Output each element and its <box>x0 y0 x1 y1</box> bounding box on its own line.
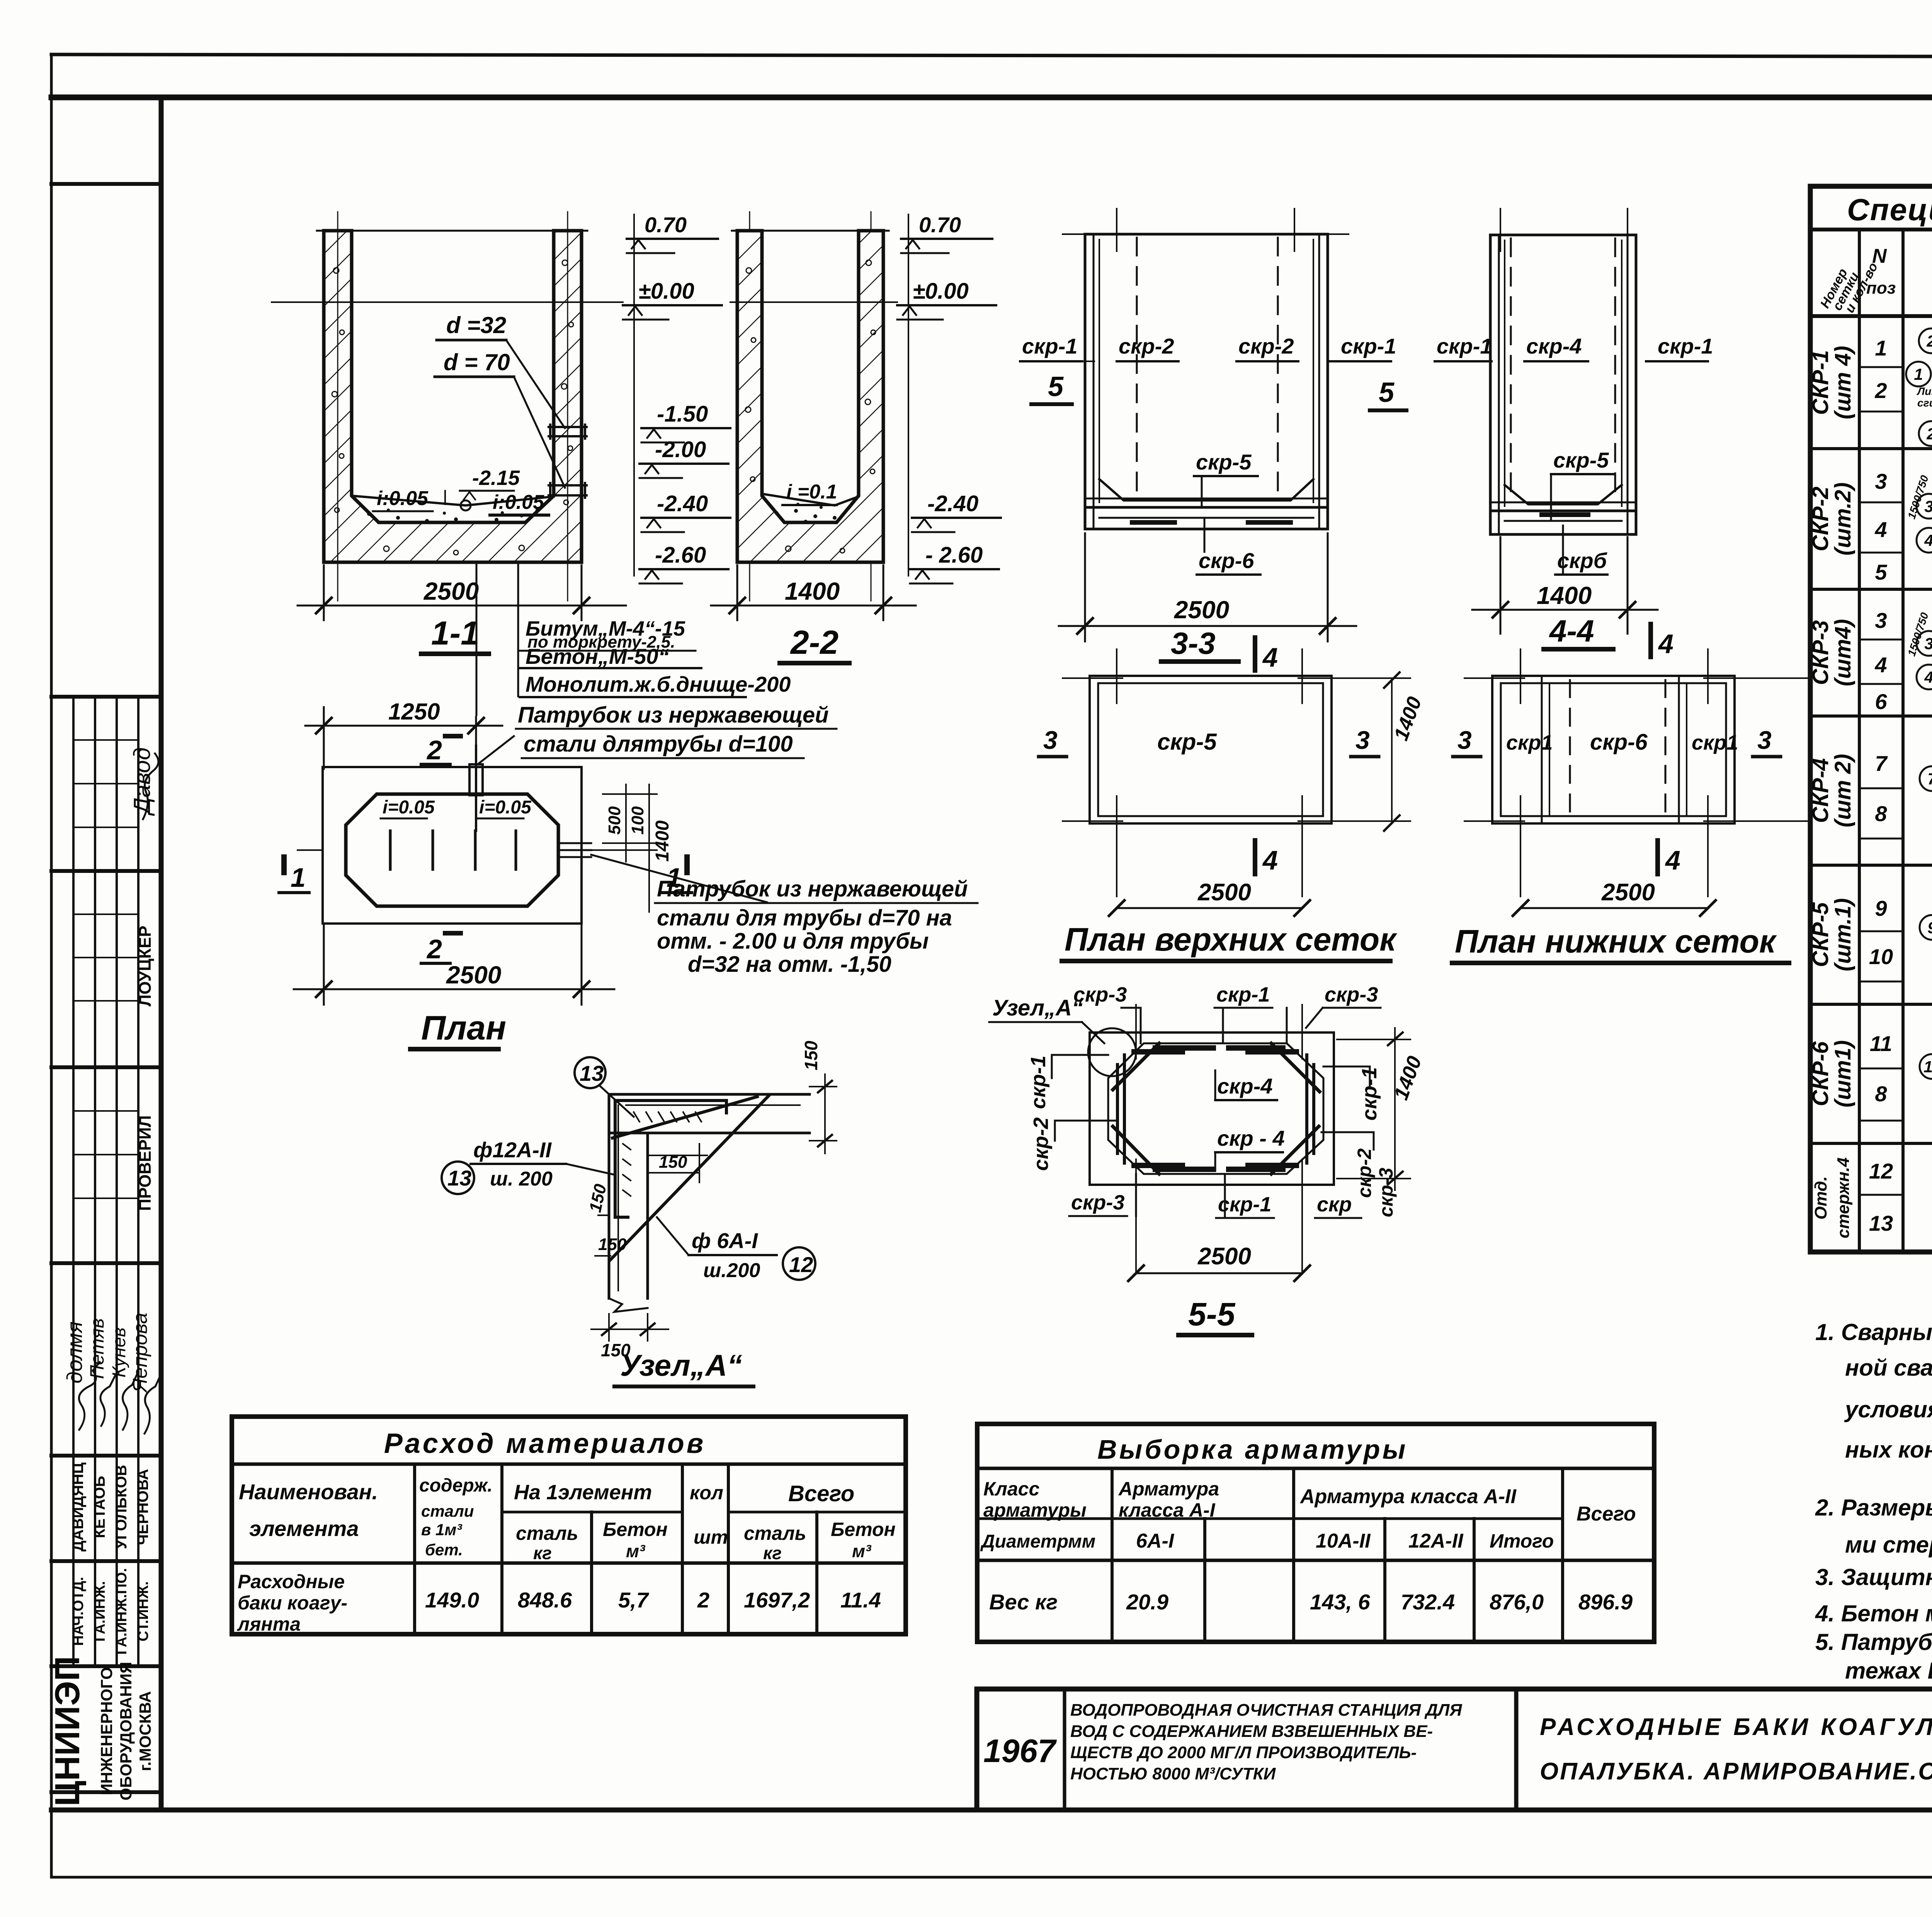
plan right pipe stub <box>558 843 591 857</box>
svg-text:СКР-5: СКР-5 <box>1808 902 1833 967</box>
svg-text:3: 3 <box>1924 497 1932 515</box>
svg-text:ЩЕСТВ ДО 2000 МГ/Л ПРОИЗВОДИТЕ: ЩЕСТВ ДО 2000 МГ/Л ПРОИЗВОДИТЕЛЬ- <box>1070 1743 1417 1762</box>
5-5 uzel A circle <box>1088 1028 1136 1076</box>
svg-text:скр-6: скр-6 <box>1590 730 1648 755</box>
svg-text:5: 5 <box>1048 371 1064 402</box>
svg-text:4: 4 <box>1262 642 1278 672</box>
svg-text:скр-5: скр-5 <box>1157 729 1217 755</box>
svg-text:(шт 4): (шт 4) <box>1830 346 1855 419</box>
section 2-2 screed floor slope <box>762 494 859 505</box>
svg-text:ми стержнями поперечного на: ми стержнями поперечного направления . <box>1845 1532 1932 1558</box>
svg-text:4: 4 <box>1924 668 1932 686</box>
svg-text:КЕТАОБ: КЕТАОБ <box>91 1476 108 1538</box>
svg-text:элемента: элемента <box>249 1516 359 1541</box>
svg-text:Кунев: Кунев <box>109 1327 129 1378</box>
svg-text:2: 2 <box>697 1588 709 1612</box>
svg-text:Отд.: Отд. <box>1811 1176 1830 1220</box>
svg-text:1967: 1967 <box>983 1733 1057 1769</box>
level -1.50 <box>641 401 730 442</box>
svg-text:ф 6А-І: ф 6А-І <box>692 1228 758 1253</box>
svg-text:стержн.4: стержн.4 <box>1834 1157 1853 1238</box>
svg-text:1250: 1250 <box>388 699 440 725</box>
svg-text:(шт.1): (шт.1) <box>1830 898 1855 971</box>
svg-text:скр1: скр1 <box>1692 731 1738 754</box>
svg-text:ВОД С СОДЕРЖАНИЕМ ВЗВЕШЕННЫХ В: ВОД С СОДЕРЖАНИЕМ ВЗВЕШЕННЫХ ВЕ- <box>1070 1722 1433 1741</box>
svg-text:Патрубок из нержавеющей: Патрубок из нержавеющей <box>657 876 968 902</box>
svg-text:Бетон: Бетон <box>603 1519 668 1540</box>
svg-text:План нижних сеток: План нижних сеток <box>1455 923 1777 959</box>
sketch mesh group 2 <box>1905 452 1932 590</box>
svg-text:НАЧ.ОТД.: НАЧ.ОТД. <box>70 1577 87 1646</box>
svg-text:i=0.05: i=0.05 <box>479 797 532 818</box>
svg-text:0.70: 0.70 <box>919 213 961 237</box>
svg-text:732.4: 732.4 <box>1401 1590 1455 1614</box>
header texts <box>1818 235 1932 318</box>
pipe sleeve d=70 through right wall <box>549 483 587 498</box>
section 1-1 top edge line <box>317 230 587 232</box>
svg-text:стали: стали <box>421 1502 474 1520</box>
svg-text:100: 100 <box>628 806 647 835</box>
svg-text:сталь: сталь <box>516 1522 578 1544</box>
sketch mesh group 3 <box>1905 603 1932 724</box>
top mesh plan rectangle <box>1090 676 1332 823</box>
svg-text:Петяв: Петяв <box>86 1318 108 1379</box>
svg-text:(шт.2): (шт.2) <box>1830 482 1855 555</box>
svg-text:3: 3 <box>1924 634 1932 653</box>
svg-text:4: 4 <box>1262 845 1278 875</box>
elevation 3-3 bottom slab lines <box>1085 479 1328 522</box>
svg-text:- 2.60: - 2.60 <box>925 543 983 568</box>
svg-text:150: 150 <box>659 1153 687 1172</box>
svg-text:2-2: 2-2 <box>790 624 838 661</box>
svg-text:±0.00: ±0.00 <box>913 279 969 304</box>
svg-text:шт: шт <box>694 1526 728 1548</box>
svg-text:4: 4 <box>1665 845 1680 875</box>
svg-text:4: 4 <box>1874 517 1887 542</box>
elevation 4-4 dashed mesh lines <box>1511 238 1615 502</box>
svg-text:скр-5: скр-5 <box>1553 448 1609 472</box>
svg-text:арматуры: арматуры <box>983 1499 1087 1521</box>
svg-text:9: 9 <box>1875 896 1887 920</box>
svg-text:Диаметрмм: Диаметрмм <box>980 1531 1095 1552</box>
svg-text:Арматура: Арматура <box>1118 1478 1219 1500</box>
svg-text:4-4: 4-4 <box>1549 614 1594 648</box>
svg-text:Линия: Линия <box>1917 385 1932 397</box>
svg-text:4: 4 <box>1874 653 1887 677</box>
svg-text:На 1элемент: На 1элемент <box>514 1481 652 1504</box>
uzel A dim 150 below slab <box>648 1144 707 1182</box>
svg-text:Наименован.: Наименован. <box>239 1480 378 1504</box>
section marker 1 left <box>279 857 309 893</box>
svg-text:Класс: Класс <box>983 1478 1039 1500</box>
svg-text:УГОЛЬКОВ: УГОЛЬКОВ <box>113 1465 130 1549</box>
svg-text:N: N <box>1872 245 1887 267</box>
svg-text:2: 2 <box>1926 425 1932 443</box>
svg-text:кг: кг <box>763 1543 782 1563</box>
svg-text:СКР-2: СКР-2 <box>1808 486 1833 551</box>
svg-text:i=0.05: i=0.05 <box>383 797 435 818</box>
5-5 outer rect <box>1090 1032 1334 1185</box>
svg-text:Вес кг: Вес кг <box>989 1590 1058 1614</box>
dimension 1400 under section 2-2 <box>711 565 916 620</box>
svg-text:848.6: 848.6 <box>518 1588 572 1612</box>
svg-text:(шт1): (шт1) <box>1830 1040 1855 1107</box>
svg-text:d = 70: d = 70 <box>444 349 510 375</box>
svg-text:3: 3 <box>1355 726 1370 754</box>
svg-text:скр-5: скр-5 <box>1196 450 1252 474</box>
5-5 corner extension verticals <box>1136 1005 1302 1271</box>
elevation 3-3 corner extension lines <box>1063 209 1349 251</box>
dimension 1250 above plan <box>305 707 502 769</box>
svg-text:ИНЖЕНЕРНОГО: ИНЖЕНЕРНОГО <box>97 1667 116 1795</box>
svg-text:2500: 2500 <box>423 577 479 605</box>
dim 2500 below <box>1109 900 1310 916</box>
plan outer wall rectangle <box>323 767 582 924</box>
levels right of section 2-2 <box>908 214 909 576</box>
uzel A slab (top horizontal element) <box>609 1094 810 1298</box>
svg-text:Расход материалов: Расход материалов <box>384 1428 706 1459</box>
svg-text:скр-4: скр-4 <box>1526 334 1582 358</box>
svg-text:НОСТЬЮ 8000 М³/СУТКИ: НОСТЬЮ 8000 М³/СУТКИ <box>1070 1764 1276 1783</box>
svg-text:5-5: 5-5 <box>1188 1296 1236 1332</box>
leader to top pipe note <box>479 736 514 763</box>
svg-text:896.9: 896.9 <box>1578 1590 1633 1614</box>
svg-text:стали длятрубы d=100: стали длятрубы d=100 <box>524 731 793 757</box>
svg-text:Расходные: Расходные <box>238 1571 345 1592</box>
svg-text:ПРОВЕРИЛ: ПРОВЕРИЛ <box>136 1115 155 1211</box>
svg-text:-2.00: -2.00 <box>655 437 706 462</box>
svg-text:5: 5 <box>1379 377 1395 408</box>
svg-text:ш. 200: ш. 200 <box>490 1168 553 1190</box>
svg-text:1-1: 1-1 <box>431 615 479 652</box>
sketch mesh group 5 <box>1920 849 1932 1007</box>
sketch mesh group 6 <box>1920 1022 1932 1146</box>
5-5 mesh bars top/bottom (thick dashes) <box>1134 1048 1296 1169</box>
svg-text:500: 500 <box>605 806 624 835</box>
svg-text:стали для трубы d=70 на: стали для трубы d=70 на <box>657 905 952 930</box>
svg-text:7: 7 <box>1927 770 1932 788</box>
pipe sleeve d=32 through right wall <box>549 425 587 439</box>
svg-text:скр-1: скр-1 <box>1658 334 1713 358</box>
svg-text:скр-2: скр-2 <box>1119 334 1174 358</box>
svg-text:сталь: сталь <box>744 1522 806 1544</box>
svg-text:149.0: 149.0 <box>425 1588 479 1612</box>
svg-text:12: 12 <box>1869 1159 1893 1183</box>
circled 13 top <box>575 1057 605 1088</box>
svg-text:d =32: d =32 <box>446 312 506 338</box>
svg-text:2: 2 <box>426 934 442 964</box>
svg-text:г.МОСКВА: г.МОСКВА <box>136 1691 154 1771</box>
level column between sections <box>633 214 635 576</box>
svg-text:150: 150 <box>598 1235 627 1254</box>
svg-text:скр: скр <box>1317 1193 1352 1216</box>
section 2-2 top edge <box>732 230 889 232</box>
svg-text:3: 3 <box>1043 726 1058 754</box>
svg-text:ГА.ИНЖ.ПО.: ГА.ИНЖ.ПО. <box>114 1568 130 1655</box>
svg-text:условиями на сварную арматур: условиями на сварную арматуру для железо… <box>1844 1397 1932 1422</box>
svg-text:8: 8 <box>1875 1082 1887 1106</box>
5-5 vertical side bars <box>1117 1055 1314 1163</box>
svg-text:ГА.ИНЖ.: ГА.ИНЖ. <box>92 1581 108 1642</box>
uzel A break line bottom <box>609 1298 648 1312</box>
svg-text:скр-3: скр-3 <box>1071 1191 1124 1214</box>
svg-text:20.9: 20.9 <box>1126 1590 1168 1614</box>
svg-text:4: 4 <box>1924 531 1932 549</box>
plan inner slope tick marks <box>390 831 516 869</box>
svg-text:сгиба: сгиба <box>1917 397 1932 409</box>
svg-text:11: 11 <box>1870 1031 1892 1056</box>
svg-text:класса А-І: класса А-І <box>1119 1499 1216 1521</box>
svg-text:3. Защитный слой бетона 25мм: 3. Защитный слой бетона 25мм. <box>1815 1564 1932 1590</box>
svg-text:1: 1 <box>1914 365 1923 383</box>
svg-text:13: 13 <box>1869 1211 1893 1235</box>
svg-text:скр-6: скр-6 <box>1199 548 1254 573</box>
svg-text:ф12А-ІІ: ф12А-ІІ <box>473 1138 552 1162</box>
dim 2500 below <box>1513 900 1716 916</box>
svg-text:876,0: 876,0 <box>1490 1590 1544 1614</box>
uzel A hatch ticks on rebar <box>623 1112 701 1196</box>
plan centerline horizontal <box>298 849 323 851</box>
svg-text:Узел„А“: Узел„А“ <box>620 1348 742 1382</box>
sketch mesh group 1 <box>1906 300 1932 453</box>
svg-text:-2.40: -2.40 <box>927 491 978 516</box>
group rotated labels <box>1808 346 1855 1238</box>
svg-text:лянта: лянта <box>237 1613 301 1635</box>
svg-text:1: 1 <box>291 862 306 893</box>
level -2.40 <box>641 491 730 532</box>
svg-text:2: 2 <box>1874 378 1887 403</box>
svg-text:5. Патрубки из нержавеющей ста: 5. Патрубки из нержавеющей стали см.на ч… <box>1815 1629 1932 1655</box>
concrete dots in walls 1-1 <box>332 260 573 555</box>
concrete dots in walls 2-2 <box>745 260 876 553</box>
svg-text:3: 3 <box>1757 726 1772 754</box>
svg-text:кг: кг <box>533 1543 552 1563</box>
svg-text:6А-І: 6А-І <box>1136 1530 1175 1552</box>
svg-text:скр-2: скр-2 <box>1238 334 1294 358</box>
svg-text:Яепрова: Яепрова <box>129 1313 151 1393</box>
svg-text:10: 10 <box>1869 944 1893 969</box>
svg-text:скр-1: скр-1 <box>1216 983 1270 1006</box>
svg-text:150: 150 <box>801 1041 821 1070</box>
row lines <box>1859 367 1932 1195</box>
elevation 3-3 dim 2500 <box>1059 533 1356 641</box>
svg-text:Давод: Давод <box>129 747 155 816</box>
svg-text:отм. - 2.00 и для трубы: отм. - 2.00 и для трубы <box>657 929 929 954</box>
plan inner octagon wall face <box>346 794 558 906</box>
svg-text:2500: 2500 <box>1601 879 1655 906</box>
elevation 3-3 outline <box>1085 234 1328 529</box>
leader to right pipe note <box>591 855 767 902</box>
svg-text:План: План <box>421 1009 506 1047</box>
section 1-1 monolithic U wall+slab (hatched) <box>324 231 582 562</box>
svg-text:13: 13 <box>447 1166 471 1190</box>
svg-text:ЧЕРНОВА: ЧЕРНОВА <box>134 1469 151 1545</box>
svg-text:баки коагу-: баки коагу- <box>238 1592 347 1614</box>
marker 4 beside 3-3 <box>1253 638 1257 670</box>
svg-text:поз: поз <box>1866 279 1896 298</box>
group separator lines <box>1810 449 1932 1143</box>
svg-text:9: 9 <box>1927 919 1932 937</box>
strip signatures <box>79 754 161 1434</box>
svg-text:Бетон„М-50“: Бетон„М-50“ <box>526 644 669 668</box>
svg-text:2500: 2500 <box>1197 879 1251 906</box>
svg-text:-2.15: -2.15 <box>472 466 520 490</box>
marker 4 below <box>1253 840 1257 874</box>
svg-text:2: 2 <box>426 735 442 765</box>
svg-text:Монолит.ж.б.днище-200: Монолит.ж.б.днище-200 <box>526 672 791 696</box>
svg-text:скр-3: скр-3 <box>1375 1168 1397 1217</box>
bottom mesh plan rectangle <box>1492 676 1735 823</box>
svg-text:СКР-4: СКР-4 <box>1808 758 1833 823</box>
section marker 2 bottom <box>421 933 461 964</box>
svg-text:1400: 1400 <box>785 577 840 605</box>
svg-text:-2.60: -2.60 <box>655 543 706 568</box>
svg-text:(шт4): (шт4) <box>1830 619 1855 686</box>
bottom mesh dashed lines <box>1570 680 1665 819</box>
svg-text:ЛОУЦКЕР: ЛОУЦКЕР <box>136 925 155 1006</box>
section marker 2 top <box>421 735 461 765</box>
svg-text:2. Размеры сеток на планах: 2. Размеры сеток на планах даны между кр… <box>1815 1495 1932 1521</box>
svg-text:Всего: Всего <box>1577 1503 1636 1525</box>
dimension 2500 below plan <box>294 925 614 1005</box>
plan top pipe stub d=100 <box>469 746 483 831</box>
svg-text:5,7: 5,7 <box>618 1588 650 1612</box>
svg-text:Выборка арматуры: Выборка арматуры <box>1097 1434 1408 1465</box>
svg-text:3: 3 <box>1458 726 1472 754</box>
svg-text:1. Сварные сетки изготовлять: 1. Сварные сетки изготовлять при помощи … <box>1815 1319 1932 1345</box>
svg-text:СКР-6: СКР-6 <box>1808 1041 1833 1106</box>
level -2.60 <box>639 543 728 583</box>
svg-text:i =0.1: i =0.1 <box>786 481 837 503</box>
svg-text:(шт 2): (шт 2) <box>1830 754 1855 827</box>
svg-text:ВОДОПРОВОДНАЯ ОЧИСТНАЯ СТАНЦИЯ: ВОДОПРОВОДНАЯ ОЧИСТНАЯ СТАНЦИЯ ДЛЯ <box>1070 1701 1462 1720</box>
svg-text:2500: 2500 <box>446 961 501 989</box>
svg-text:-1.50: -1.50 <box>657 401 708 427</box>
marker 4 beside 4-4 <box>1648 624 1653 657</box>
svg-text:12: 12 <box>789 1252 813 1277</box>
svg-text:Спецификация арматуры на1элеме: Спецификация арматуры на1элемент <box>1847 192 1932 227</box>
svg-text:1: 1 <box>1875 336 1887 360</box>
spec table outer frame <box>1810 186 1932 1252</box>
svg-text:скр-3: скр-3 <box>1325 983 1378 1006</box>
svg-text:13: 13 <box>580 1061 604 1085</box>
svg-text:3: 3 <box>1875 469 1887 493</box>
svg-text:Арматура класса А-ІІ: Арматура класса А-ІІ <box>1299 1485 1517 1508</box>
poz numbers <box>1869 336 1893 1235</box>
svg-text:скр-3: скр-3 <box>1073 983 1127 1006</box>
svg-text:скр-1: скр-1 <box>1218 1193 1271 1216</box>
svg-text:7: 7 <box>1875 751 1888 776</box>
svg-text:10А-ІІ: 10А-ІІ <box>1316 1530 1371 1552</box>
svg-text:Бетон: Бетон <box>831 1519 896 1540</box>
svg-text:1697,2: 1697,2 <box>744 1588 810 1612</box>
svg-text:скр - 4: скр - 4 <box>1217 1126 1285 1150</box>
svg-text:ных конструкций ТУ-73-56.: ных конструкций ТУ-73-56. <box>1845 1437 1932 1463</box>
svg-text:скр-4: скр-4 <box>1217 1074 1273 1098</box>
level +-0.00 (section 1-1) <box>272 279 722 320</box>
svg-text:Узел„А“: Узел„А“ <box>992 995 1083 1021</box>
spec table column lines <box>1859 230 1932 1252</box>
svg-text:кол: кол <box>690 1482 723 1504</box>
svg-text:скр-1: скр-1 <box>1022 334 1078 358</box>
svg-text:скрб: скрб <box>1557 548 1607 573</box>
svg-text:143, 6: 143, 6 <box>1310 1590 1371 1614</box>
svg-text:3-3: 3-3 <box>1171 626 1216 660</box>
svg-text:11.4: 11.4 <box>840 1588 881 1612</box>
dimension 2500 under section 1-1 <box>298 565 626 620</box>
svg-text:2: 2 <box>1926 332 1932 350</box>
svg-text:12А-ІІ: 12А-ІІ <box>1408 1530 1464 1552</box>
svg-text:в 1м³: в 1м³ <box>421 1521 462 1539</box>
uzel A dim 150 right of slab <box>810 1074 837 1153</box>
svg-text:тежах ВГО.: тежах ВГО. <box>1845 1658 1932 1684</box>
svg-text:±0.00: ±0.00 <box>638 279 694 304</box>
leader notes: bitum, beton, monolith <box>476 563 478 715</box>
sketch mesh group 4 <box>1920 731 1932 858</box>
5-5 corner diagonal bars <box>1113 1043 1320 1174</box>
svg-text:2500: 2500 <box>1197 1243 1251 1270</box>
svg-text:ОБОРУДОВАНИЯ: ОБОРУДОВАНИЯ <box>117 1662 135 1801</box>
svg-text:i:0.05: i:0.05 <box>377 487 429 510</box>
svg-text:4: 4 <box>1658 629 1673 659</box>
elevation 3-3 dashed mesh lines <box>1137 238 1278 498</box>
svg-text:м³: м³ <box>852 1541 872 1561</box>
svg-text:11: 11 <box>1923 1058 1932 1076</box>
wall axis lines sections <box>338 212 871 601</box>
marker 4 below <box>1655 840 1660 874</box>
svg-text:i:0.05: i:0.05 <box>493 491 544 514</box>
svg-text:СТ.ИНЖ.: СТ.ИНЖ. <box>135 1581 151 1641</box>
svg-text:м³: м³ <box>626 1541 646 1561</box>
elevation 4-4 dim 1400 <box>1472 537 1658 634</box>
svg-text:скр-1: скр-1 <box>1341 334 1396 358</box>
svg-text:Всего: Всего <box>788 1481 854 1506</box>
svg-text:1400: 1400 <box>1537 582 1592 609</box>
svg-text:План верхних сеток: План верхних сеток <box>1065 921 1397 958</box>
svg-text:3: 3 <box>1875 608 1887 633</box>
section 2-2 monolithic U wall+slab (hatched) <box>737 231 883 562</box>
svg-text:8: 8 <box>1875 801 1887 826</box>
uzel A bottom dim 150 <box>591 1314 668 1341</box>
elevation 4-4 outline <box>1490 235 1636 534</box>
level 0.70 (section 1-1) <box>627 213 718 253</box>
svg-text:долмя: долмя <box>62 1322 87 1384</box>
svg-text:СКР-1: СКР-1 <box>1808 350 1833 415</box>
level -2.00 <box>639 437 728 478</box>
5-5 dim 2500 <box>1128 1266 1310 1281</box>
elevation 4-4 bottom slab <box>1490 485 1636 521</box>
right small dims 500 100 1400 <box>603 784 657 912</box>
concrete dots in screed bowl 2-2 <box>775 503 837 524</box>
section 1-1 screed floor with slopes and drain <box>352 496 554 510</box>
svg-text:d=32 на отм. -1,50: d=32 на отм. -1,50 <box>688 952 891 977</box>
bottom mesh extension lines <box>1464 649 1808 896</box>
svg-text:скр-2: скр-2 <box>1354 1148 1375 1198</box>
svg-text:1400: 1400 <box>652 820 673 862</box>
svg-text:ной сварки в соответствии с: ной сварки в соответствии с технически м… <box>1845 1355 1932 1381</box>
svg-text:содерж.: содерж. <box>419 1475 493 1496</box>
top mesh plan extension lines <box>1063 649 1410 896</box>
svg-text:Итого: Итого <box>1490 1530 1554 1552</box>
svg-text:скр-2: скр-2 <box>1029 1118 1053 1171</box>
svg-text:-2.40: -2.40 <box>657 491 708 516</box>
svg-text:0.70: 0.70 <box>645 213 687 237</box>
svg-text:ЦНИИЭП: ЦНИИЭП <box>48 1656 87 1806</box>
svg-text:2500: 2500 <box>1174 596 1229 624</box>
strip rotated texts <box>48 747 155 1806</box>
svg-text:6: 6 <box>1875 689 1887 714</box>
svg-text:РАСХОДНЫЕ БАКИ КОАГУЛЯНТА: РАСХОДНЫЕ БАКИ КОАГУЛЯНТА <box>1540 1714 1932 1740</box>
